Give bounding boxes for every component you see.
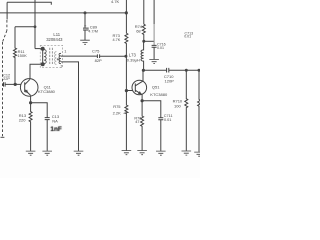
wire left vertical into module: [6, 2, 8, 19]
top supply rail: [0, 12, 126, 14]
wire secondary pin 1: [61, 55, 97, 57]
capacitor C716: [152, 45, 157, 59]
wire R11 top: [15, 26, 35, 28]
wire to transformer pin: [35, 48, 43, 50]
node transformer pin top dot: [41, 47, 45, 51]
svg-text:0.01: 0.01: [164, 118, 171, 122]
transformer L11 box: [40, 45, 62, 67]
transformer primary pin line: [42, 49, 44, 65]
svg-text:KTC3880: KTC3880: [38, 89, 56, 94]
module boundary dashed: [6, 20, 8, 31]
ground R710: [182, 151, 192, 155]
svg-text:68: 68: [136, 28, 141, 33]
resistor R13: [29, 103, 32, 151]
wire emitter branch to C13: [31, 103, 48, 118]
node base of Q11 junction: [14, 83, 17, 86]
ground R75: [122, 151, 132, 155]
svg-text:0.01: 0.01: [184, 35, 191, 39]
wire C716 top: [153, 0, 155, 24]
svg-text:82P: 82P: [95, 58, 102, 63]
transformer secondary winding: [59, 53, 61, 63]
resistor R75: [125, 91, 128, 151]
svg-text:4.7K: 4.7K: [111, 0, 120, 4]
wire R73 to base node: [125, 56, 127, 90]
wire x35 vertical: [34, 0, 36, 49]
wire base Q51: [126, 90, 135, 92]
ground R76: [137, 151, 147, 155]
svg-text:KTC3880: KTC3880: [150, 92, 168, 97]
lower rail left part: [143, 69, 166, 71]
svg-text:0.39μH: 0.39μH: [127, 58, 140, 63]
svg-text:3208443: 3208443: [46, 37, 63, 42]
svg-text:47: 47: [135, 120, 139, 124]
capacitor C711: [158, 118, 163, 151]
transformer inner winding: [55, 52, 57, 65]
svg-text:2.2K: 2.2K: [113, 111, 122, 116]
transformer core: [50, 48, 53, 64]
node junction at 35,26.8: [34, 25, 37, 28]
wire R74 line top: [143, 0, 145, 24]
svg-text:C75: C75: [92, 48, 100, 53]
svg-text:2: 2: [61, 65, 63, 69]
svg-text:120P: 120P: [165, 79, 175, 84]
resistor R76: [141, 101, 144, 151]
ground for C716: [149, 60, 159, 64]
resistor R11: [14, 27, 17, 85]
svg-text:1: 1: [64, 50, 66, 54]
node Q51 base junction: [125, 89, 128, 92]
ground edge: [194, 152, 200, 156]
wire R74 to C716: [144, 40, 154, 42]
node emitter junction: [29, 101, 32, 104]
wire emitter to C711: [142, 101, 161, 118]
transistor Q11: [20, 79, 38, 97]
svg-text:1nF: 1nF: [50, 126, 61, 133]
lower rail right part: [169, 69, 200, 71]
inductor L73: [141, 41, 144, 70]
node C75 to R73 line: [124, 55, 127, 58]
resistor R73: [125, 33, 128, 56]
wire top branch: [7, 2, 51, 5]
ground C13: [42, 151, 52, 155]
transformer primary winding: [44, 50, 46, 64]
node L73 bottom junction: [142, 69, 145, 72]
polarity mark C89: [84, 25, 86, 27]
node R74 bottom junction: [142, 40, 145, 43]
ground for C89: [80, 40, 90, 44]
transistor Q51: [132, 80, 147, 95]
capacitor C75: [97, 54, 125, 58]
capacitor C89 wire: [84, 13, 86, 28]
capacitor C89: [83, 28, 89, 40]
ground C711: [156, 151, 166, 155]
svg-text:100: 100: [174, 104, 181, 109]
wire R73 line top: [125, 0, 127, 33]
ground R13: [26, 151, 36, 155]
svg-text:4.7/M: 4.7/M: [88, 29, 98, 33]
winding blob: [57, 58, 59, 60]
wire Q11 collector: [30, 64, 43, 79]
node transformer pin bottom dot: [41, 62, 45, 66]
node rail edge: [198, 69, 201, 72]
wire Q51 emitter: [141, 95, 143, 101]
resistor R710: [185, 70, 188, 151]
node rail R710: [185, 69, 188, 72]
capacitor C12: [2, 82, 24, 86]
node C89 tap: [84, 11, 87, 14]
node rail to R73: [125, 11, 128, 14]
svg-text:22P: 22P: [3, 77, 10, 81]
svg-text:150K: 150K: [17, 53, 27, 58]
wire Q51 collector: [142, 70, 144, 81]
resistor R74: [142, 24, 145, 41]
svg-text:Q51: Q51: [152, 85, 160, 90]
capacitor C710: [167, 68, 169, 73]
wire Q11 emitter: [30, 96, 32, 103]
svg-text:4.7K: 4.7K: [113, 38, 121, 42]
capacitor C13: [45, 118, 50, 151]
svg-text:R75: R75: [113, 104, 121, 109]
resistor R711 edge: [198, 70, 201, 152]
svg-text:0.01: 0.01: [157, 46, 164, 50]
svg-text:220: 220: [19, 117, 26, 122]
ground secondary: [74, 151, 84, 155]
wire secondary pin 2: [61, 62, 79, 151]
node Q51 emitter junction: [141, 99, 144, 102]
module boundary foot: [1, 136, 5, 138]
svg-text:NA: NA: [52, 118, 58, 123]
